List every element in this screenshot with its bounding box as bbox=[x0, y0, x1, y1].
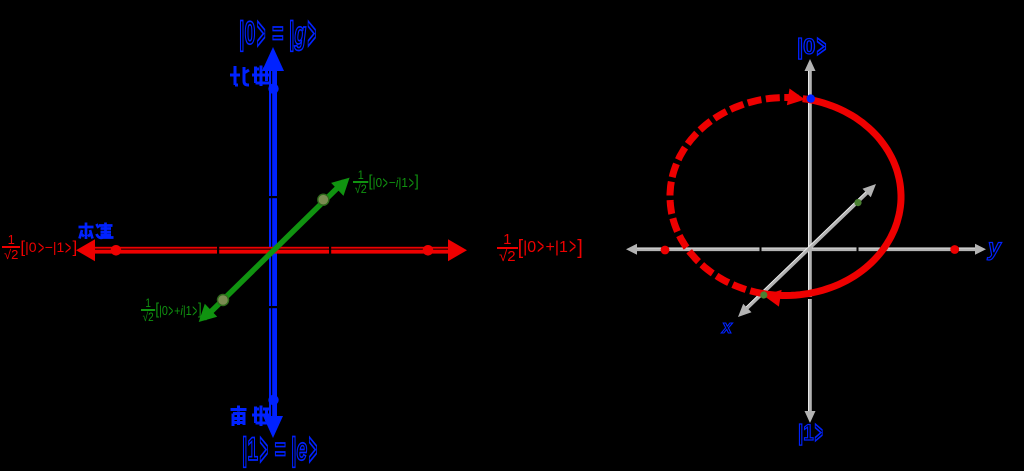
blue dot at top of trajectory bbox=[807, 94, 815, 102]
blue z-axis shaft bbox=[269, 62, 277, 422]
red dot right on horizontal axis bbox=[950, 245, 959, 254]
red x-axis shaft bbox=[90, 247, 452, 254]
green dot lower on diagonal bbox=[760, 291, 767, 298]
label y axis right diagram bbox=[988, 236, 1001, 259]
red dot left bbox=[111, 245, 122, 256]
tick on red axis left bbox=[217, 246, 219, 255]
label x axis right diagram bbox=[722, 318, 732, 336]
red trajectory arrowhead at lower-left end of solid arc bbox=[764, 290, 782, 307]
tick on red axis right bbox=[329, 246, 331, 255]
tick gray horizontal right bbox=[857, 246, 859, 253]
olive dot upper on green axis bbox=[318, 194, 329, 205]
green y-axis upper-right arrowhead bbox=[331, 178, 350, 196]
blue dot north pole bbox=[268, 84, 278, 94]
label |0> top of right diagram bbox=[797, 36, 828, 58]
tick gray horizontal left bbox=[760, 246, 762, 253]
gray horizontal axis right diagram bbox=[632, 248, 980, 252]
red trajectory dashed arc (back) bbox=[670, 98, 806, 294]
red x-axis inner dark line bbox=[90, 249, 452, 250]
red x-axis left arrowhead bbox=[76, 239, 95, 261]
label equator (chi dao) bbox=[77, 221, 114, 241]
label |1> = |e> bottom of left diagram bbox=[242, 433, 318, 465]
gray diagonal axis right diagram bbox=[742, 188, 872, 313]
gray vertical axis right diagram bbox=[808, 66, 812, 416]
tick on blue axis lower bbox=[268, 306, 278, 308]
label |0> = |g> top of left diagram bbox=[239, 17, 318, 49]
label 1/sqrt2 [|0> + |1>] right red formula bbox=[497, 232, 583, 264]
label north pole (bei ji) bbox=[229, 64, 271, 88]
red dot left on horizontal axis bbox=[661, 246, 670, 255]
blue z-axis top arrowhead bbox=[262, 47, 284, 71]
tick on blue axis upper bbox=[268, 196, 278, 198]
label 1/sqrt2 [|0> - |1>] left red formula bbox=[2, 233, 77, 261]
green dot upper on diagonal bbox=[854, 199, 861, 206]
label 1/sqrt2 [|0> + i|1>] green lower formula bbox=[141, 297, 202, 323]
olive dot lower on green axis bbox=[218, 295, 229, 306]
green y-axis line bbox=[204, 182, 344, 319]
red trajectory solid arc (front) bbox=[764, 99, 901, 295]
blue z-axis inner dark line bbox=[271, 62, 272, 422]
blue dot south pole bbox=[268, 395, 278, 405]
red trajectory arrowhead at top end of dashed arc bbox=[787, 89, 805, 106]
red dot right bbox=[423, 245, 434, 256]
blue z-axis bottom arrowhead bbox=[263, 416, 283, 438]
label 1/sqrt2 [|0> - i|1>] green upper formula bbox=[353, 169, 419, 195]
tick gray vertical lower bbox=[806, 297, 813, 299]
label south pole (nan ji) bbox=[229, 404, 271, 428]
green y-axis lower-left arrowhead bbox=[199, 304, 218, 322]
label |1> bottom of right diagram bbox=[798, 422, 825, 444]
red x-axis right arrowhead bbox=[448, 239, 467, 261]
